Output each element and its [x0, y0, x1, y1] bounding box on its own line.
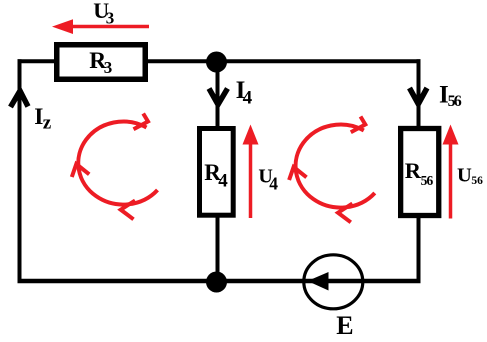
svg-text:3: 3: [106, 9, 115, 28]
current arrow I4: [209, 89, 228, 105]
node A (top junction): [206, 52, 227, 73]
svg-text:R: R: [405, 158, 422, 183]
wire: right vertical branch: [417, 59, 421, 283]
svg-text:3: 3: [104, 58, 113, 77]
svg-text:56: 56: [448, 93, 462, 110]
mesh loop arrow (right loop): [289, 117, 375, 223]
svg-text:z: z: [43, 113, 52, 134]
wire: middle branch: [216, 61, 220, 281]
current arrow I56: [410, 88, 428, 104]
svg-text:E: E: [336, 311, 353, 340]
wire: bottom segment: [18, 279, 421, 284]
source E arrow: [308, 272, 329, 291]
svg-text:56: 56: [471, 175, 483, 187]
wire: top-left segment to R3: [18, 59, 59, 63]
wire: top segment R3 to right corner: [146, 59, 421, 63]
mesh loop arrow (left loop): [72, 114, 158, 220]
svg-text:4: 4: [218, 171, 228, 192]
node B (bottom junction): [206, 272, 227, 293]
svg-text:U: U: [457, 165, 472, 187]
svg-text:56: 56: [421, 173, 434, 188]
voltage arrow U3: [52, 19, 149, 34]
wire: left vertical branch: [18, 59, 22, 283]
svg-text:4: 4: [269, 173, 278, 193]
svg-text:4: 4: [243, 87, 253, 108]
resistor R4: [200, 129, 234, 216]
voltage arrow U56: [443, 125, 459, 219]
resistor R3: [57, 45, 146, 80]
source E (circle): [304, 255, 363, 309]
current arrow Iz: [11, 91, 29, 107]
resistor R56: [401, 129, 439, 216]
voltage arrow U4: [243, 125, 259, 219]
